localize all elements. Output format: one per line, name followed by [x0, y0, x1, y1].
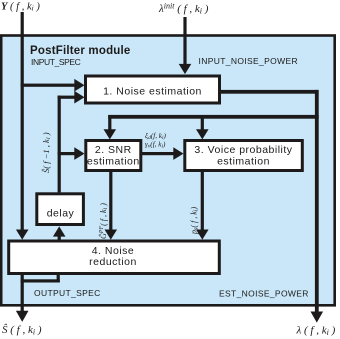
box delay — [37, 194, 84, 225]
arrow into box1 left upper — [74, 79, 84, 92]
wire branch into box2 left — [58, 152, 75, 155]
wire Y input vertical — [21, 12, 24, 230]
arrow into box4 top (Y input) — [16, 230, 29, 240]
wire delay feedback from box4 top — [58, 234, 61, 241]
arrow into box1 top — [179, 64, 192, 74]
arrow into box2 left — [74, 147, 84, 160]
wire output horizontal below box4 — [21, 279, 60, 282]
arrow up into delay bottom — [53, 226, 66, 236]
arrow exit lambda bottom — [311, 312, 324, 323]
arrow exit S hat bottom — [16, 311, 29, 322]
svg-text:INPUT_SPEC: INPUT_SPEC — [31, 57, 81, 67]
svg-text:PostFilter module: PostFilter module — [30, 45, 131, 57]
arrow into box3 top — [196, 129, 209, 139]
arrow into box3 left — [173, 147, 183, 160]
svg-text:estimation: estimation — [217, 155, 270, 167]
wire lambda init vertical — [183, 17, 186, 64]
wire drop into box3 top — [201, 115, 204, 130]
arrow into box4 top from box3 — [196, 230, 209, 240]
svg-text:3. Voice probability: 3. Voice probability — [194, 144, 292, 156]
svg-text:1. Noise estimation: 1. Noise estimation — [103, 86, 202, 98]
wire branch Y to box1 first input — [21, 84, 75, 87]
box3 Voice probability estimation — [185, 141, 302, 171]
wire feedback vertical (delay to box1/box2) — [58, 96, 61, 193]
wire output stub below box4 — [57, 275, 60, 283]
wire box1 output right — [221, 90, 318, 94]
box2 SNR estimation — [86, 141, 141, 171]
wire box2 to box3 — [142, 152, 174, 155]
svg-text:Y ( f , ki ): Y ( f , ki ) — [1, 1, 40, 12]
svg-text:Ŝ ( f , ki ): Ŝ ( f , ki ) — [2, 324, 42, 337]
arrow into box4 top from box2 — [105, 230, 118, 240]
svg-text:INPUT_NOISE_POWER: INPUT_NOISE_POWER — [199, 56, 298, 66]
wire branch into box1 second input — [58, 96, 75, 99]
wire box3 bottom output — [201, 172, 204, 230]
svg-text:reduction: reduction — [89, 256, 137, 268]
arrow into box1 left lower — [74, 91, 84, 104]
svg-text:delay: delay — [47, 207, 75, 219]
wire box2 bottom output — [109, 172, 112, 230]
svg-text:λ ( f , ki ): λ ( f , ki ) — [296, 325, 336, 338]
svg-text:OUTPUT_SPEC: OUTPUT_SPEC — [34, 288, 101, 298]
svg-text:2. SNR: 2. SNR — [95, 144, 132, 156]
svg-text:estimation: estimation — [87, 155, 140, 167]
box1 Noise estimation — [86, 76, 220, 103]
wire output vertical to S hat — [21, 275, 24, 312]
wire drop into box2 top — [108, 115, 111, 130]
arrow into box2 top — [104, 129, 117, 139]
outer module box — [1, 36, 335, 306]
wire lower horizontal distribution — [108, 115, 319, 119]
svg-text:ĜPF( f , ki ): ĜPF( f , ki ) — [98, 203, 109, 239]
box4 Noise reduction — [9, 241, 220, 274]
svg-text:EST_NOISE_POWER: EST_NOISE_POWER — [219, 289, 309, 299]
wire right vertical (est noise power) — [315, 90, 319, 312]
